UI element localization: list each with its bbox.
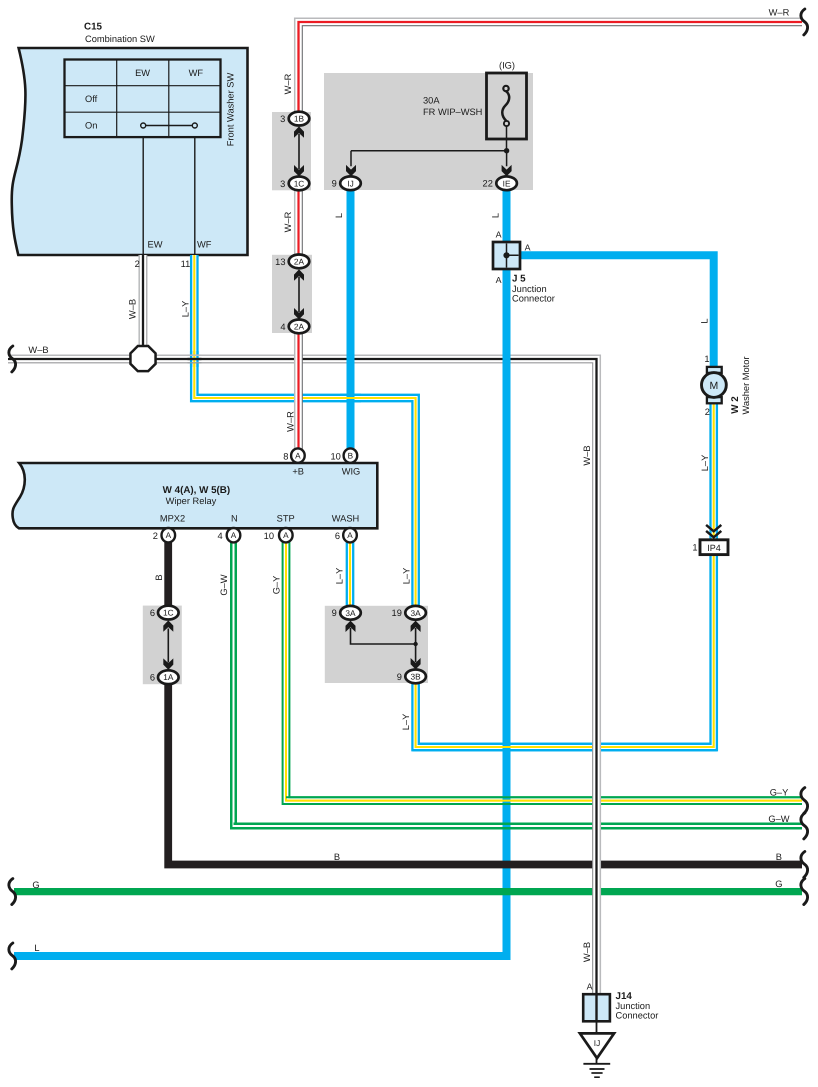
svg-text:6: 6 <box>150 673 155 683</box>
svg-text:W–R: W–R <box>769 8 790 18</box>
svg-text:2: 2 <box>153 531 158 541</box>
svg-text:W 2: W 2 <box>730 396 741 414</box>
svg-text:3A: 3A <box>345 608 356 618</box>
svg-text:IJ: IJ <box>594 1038 600 1048</box>
svg-text:W–R: W–R <box>283 211 293 232</box>
svg-text:B: B <box>334 852 340 862</box>
svg-text:N: N <box>231 513 238 523</box>
svg-text:Connector: Connector <box>512 293 555 303</box>
svg-text:G: G <box>32 880 39 890</box>
svg-text:W–R: W–R <box>286 411 296 432</box>
svg-text:1C: 1C <box>294 178 305 188</box>
svg-text:WF: WF <box>197 240 212 250</box>
svg-text:WF: WF <box>189 68 204 78</box>
svg-text:A: A <box>496 275 502 285</box>
svg-text:L–Y: L–Y <box>335 568 345 585</box>
svg-text:C15: C15 <box>84 22 103 33</box>
svg-text:B: B <box>776 852 782 862</box>
svg-text:9: 9 <box>397 672 402 682</box>
svg-text:L: L <box>334 213 344 218</box>
svg-text:M: M <box>710 380 719 392</box>
svg-text:10: 10 <box>330 451 340 461</box>
svg-text:W–B: W–B <box>582 445 592 465</box>
svg-text:10: 10 <box>264 531 274 541</box>
svg-text:EW: EW <box>148 240 163 250</box>
svg-text:1B: 1B <box>294 114 305 124</box>
svg-text:EW: EW <box>135 68 150 78</box>
svg-text:11: 11 <box>181 259 191 269</box>
svg-text:STP: STP <box>277 513 295 523</box>
svg-text:(IG): (IG) <box>499 60 515 70</box>
svg-text:1: 1 <box>704 354 709 364</box>
svg-text:2A: 2A <box>294 321 305 331</box>
svg-text:W–R: W–R <box>283 73 293 94</box>
svg-text:G–W: G–W <box>219 574 229 595</box>
svg-text:9: 9 <box>332 179 337 189</box>
svg-text:2A: 2A <box>294 256 305 266</box>
svg-text:L: L <box>34 943 39 953</box>
svg-text:G–W: G–W <box>768 814 789 824</box>
svg-text:W 4(A), W 5(B): W 4(A), W 5(B) <box>163 485 230 496</box>
svg-text:6: 6 <box>335 531 340 541</box>
svg-text:W–B: W–B <box>128 299 138 319</box>
svg-text:Wiper Relay: Wiper Relay <box>166 496 217 506</box>
svg-text:1C: 1C <box>163 608 174 618</box>
svg-text:Front Washer SW: Front Washer SW <box>226 73 236 147</box>
svg-text:IP4: IP4 <box>707 543 721 553</box>
svg-text:4: 4 <box>280 322 285 332</box>
svg-text:A: A <box>525 242 531 252</box>
svg-text:L–Y: L–Y <box>700 455 710 472</box>
svg-text:3A: 3A <box>411 608 422 618</box>
svg-text:Combination SW: Combination SW <box>85 34 155 44</box>
svg-text:3: 3 <box>280 114 285 124</box>
svg-text:2: 2 <box>705 407 710 417</box>
svg-text:A: A <box>295 452 301 461</box>
svg-text:A: A <box>496 229 502 239</box>
svg-text:A: A <box>283 531 289 540</box>
svg-text:B: B <box>348 452 354 461</box>
svg-text:W–B: W–B <box>582 942 592 962</box>
svg-text:B: B <box>154 574 164 580</box>
svg-text:On: On <box>85 120 97 130</box>
svg-text:Junction: Junction <box>616 1001 651 1011</box>
svg-text:19: 19 <box>392 608 402 618</box>
svg-text:L–Y: L–Y <box>401 714 411 731</box>
svg-text:G–Y: G–Y <box>272 576 282 595</box>
svg-text:FR WIP–WSH: FR WIP–WSH <box>423 107 482 117</box>
svg-text:G–Y: G–Y <box>770 787 789 797</box>
svg-text:WASH: WASH <box>332 513 360 523</box>
svg-text:L: L <box>699 318 709 323</box>
svg-text:W–B: W–B <box>28 345 48 355</box>
svg-text:1A: 1A <box>163 672 174 682</box>
svg-text:Off: Off <box>85 94 98 104</box>
svg-text:3B: 3B <box>411 671 422 681</box>
svg-text:J 5: J 5 <box>512 273 526 284</box>
svg-text:A: A <box>347 531 353 540</box>
svg-text:1: 1 <box>692 543 697 553</box>
svg-text:+B: +B <box>292 466 304 476</box>
svg-text:IE: IE <box>503 178 511 188</box>
svg-text:WIG: WIG <box>342 466 361 476</box>
svg-text:L: L <box>490 213 500 218</box>
svg-text:9: 9 <box>332 608 337 618</box>
svg-text:A: A <box>587 981 593 991</box>
svg-text:22: 22 <box>483 179 493 189</box>
svg-text:A: A <box>231 531 237 540</box>
svg-text:L–Y: L–Y <box>181 301 191 318</box>
svg-text:Junction: Junction <box>512 284 547 294</box>
svg-text:13: 13 <box>275 257 285 267</box>
svg-text:L–Y: L–Y <box>401 568 411 585</box>
svg-text:2: 2 <box>135 259 140 269</box>
svg-text:3: 3 <box>280 179 285 189</box>
svg-text:8: 8 <box>283 451 288 461</box>
svg-text:A: A <box>166 531 172 540</box>
svg-text:30A: 30A <box>423 96 440 106</box>
svg-text:4: 4 <box>218 531 223 541</box>
svg-text:MPX2: MPX2 <box>160 513 185 523</box>
svg-text:Connector: Connector <box>616 1011 659 1021</box>
svg-text:G: G <box>775 879 782 889</box>
svg-text:6: 6 <box>150 608 155 618</box>
svg-text:Washer Motor: Washer Motor <box>741 356 751 414</box>
svg-text:IJ: IJ <box>347 178 353 188</box>
